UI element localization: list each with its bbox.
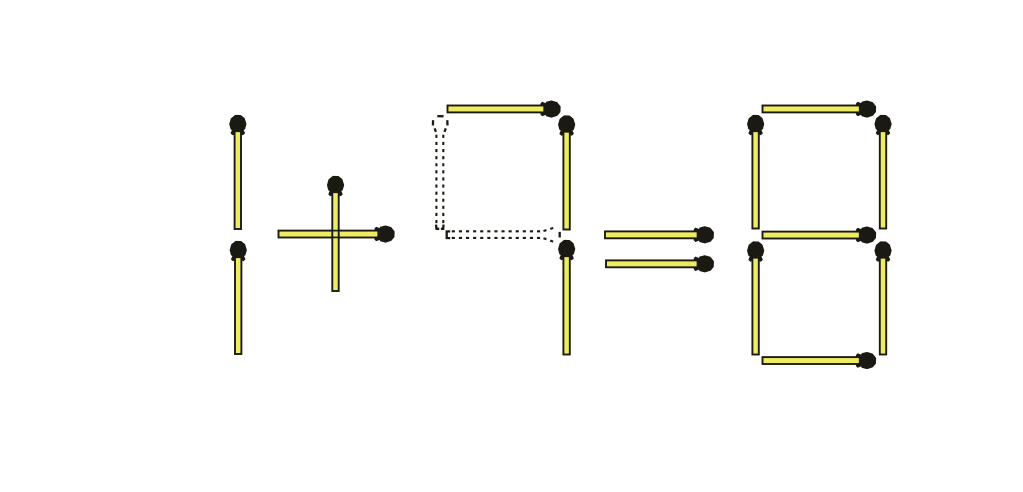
matchstick: digit 9, top-right segment — [559, 116, 575, 229]
matchstick: digit 1, lower match — [230, 242, 246, 354]
matchstick: digit 1, upper match — [230, 116, 246, 229]
matchstick: equals sign, upper match — [605, 227, 713, 243]
matchstick: plus sign, horizontal match — [279, 226, 394, 242]
matchstick: digit 8, top-left segment — [748, 116, 764, 229]
matchstick: digit 9, bottom-right segment — [559, 241, 575, 355]
dashed outline: removed match, left side of digit 9 — [433, 116, 448, 229]
matchstick: digit 8, top segment — [763, 101, 876, 117]
plus sign: horizontal match outline crossing over vertical stick — [330, 231, 341, 238]
matchstick: digit 8, bottom-right segment — [875, 242, 891, 354]
matchstick: plus sign, vertical match — [328, 177, 344, 291]
dashed outline: removed match, middle segment of digit 9 — [447, 227, 560, 242]
matchstick: equals sign, lower match — [606, 256, 713, 272]
matchstick: digit 8, top-right segment — [875, 116, 891, 229]
matchstick: digit 9, top segment — [448, 101, 560, 117]
matchstick: digit 8, bottom-left segment — [748, 242, 764, 354]
matchstick: digit 8, bottom segment — [763, 353, 876, 369]
matchstick: digit 8, middle segment — [763, 227, 876, 243]
